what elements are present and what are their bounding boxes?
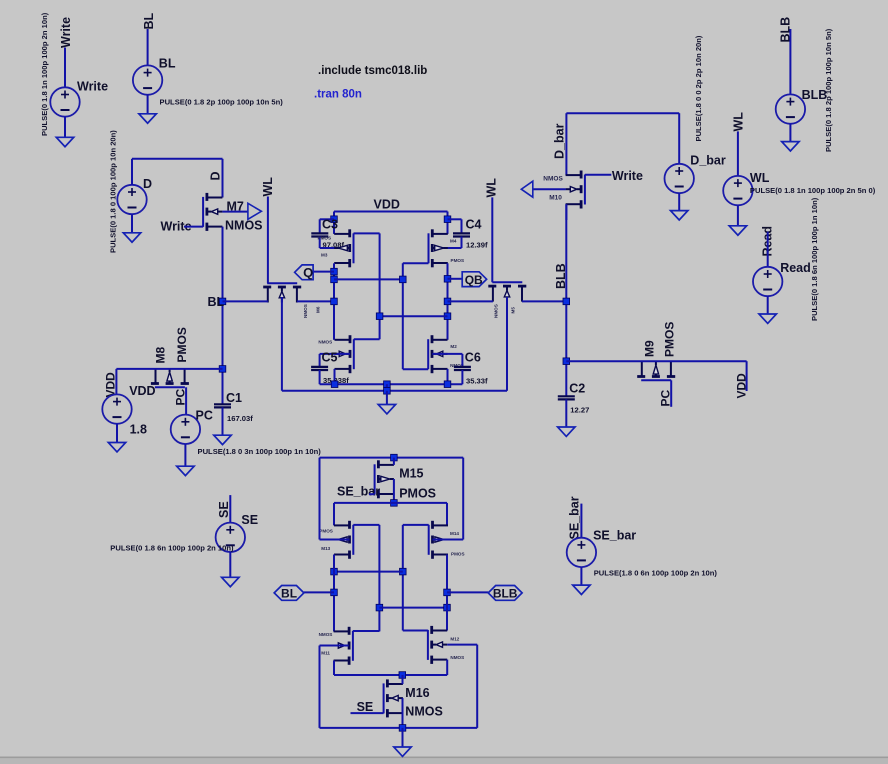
wire M3 gate lead (354, 232, 380, 234)
transistor M15 PMOS (374, 464, 376, 494)
junction SA ground (399, 725, 406, 732)
wire BL column (222, 227, 224, 405)
svg-text:PULSE(0 1.8 6n 100p 100p 2n 10: PULSE(0 1.8 6n 100p 100p 2n 10n) (110, 543, 234, 552)
wire M6 bulk down (281, 297, 283, 391)
wire M2 gate lead (403, 368, 428, 370)
svg-text:167.03f: 167.03f (227, 414, 253, 423)
wire M7 gate lead (184, 226, 203, 228)
wire BLB column (565, 204, 567, 396)
wire SA BL node (333, 555, 335, 632)
svg-text:C6: C6 (465, 351, 481, 365)
wire VDD src up (115, 369, 117, 395)
wire C3 top lead (319, 219, 321, 233)
wire right gates line (402, 263, 404, 369)
wire M16 source down (402, 698, 404, 728)
wire M15 bulk-source down (393, 479, 395, 503)
wire BLB net (789, 29, 791, 94)
ground PC (177, 466, 194, 475)
wire VDD stub right (746, 361, 748, 391)
flag BLB (488, 586, 522, 601)
wire M10 gate lead (585, 174, 611, 176)
wire M15 gate lead (369, 493, 375, 495)
transistor M4 PMOS (428, 233, 430, 263)
wire cell source rail (320, 383, 463, 385)
wire D_bar up (678, 113, 680, 164)
wire SE net (229, 495, 231, 522)
svg-text:PULSE(0 1.8 1n 100p 100p 2n 10: PULSE(0 1.8 1n 100p 100p 2n 10n) (40, 12, 49, 136)
svg-text:BL: BL (159, 57, 176, 71)
junction bulk rail (384, 388, 391, 395)
voltage source V-Read (753, 267, 782, 296)
wire M11 source down (333, 661, 335, 676)
wire Read net (767, 232, 769, 267)
svg-text:PULSE(1.8 0 0 2p 2p 10n 20n): PULSE(1.8 0 0 2p 2p 10n 20n) (694, 35, 703, 141)
wire C3 to VDD (320, 218, 334, 220)
svg-text:C5: C5 (322, 351, 338, 365)
svg-text:D_bar: D_bar (690, 154, 726, 168)
svg-text:PMOS: PMOS (175, 327, 189, 362)
transistor M11 NMOS (352, 631, 354, 661)
wire C6 bottom lead (461, 370, 463, 384)
svg-text:Q: Q (303, 265, 313, 280)
transistor M6 NMOS access left (267, 282, 297, 284)
svg-text:WL: WL (261, 177, 275, 197)
svg-text:PC: PC (196, 409, 213, 423)
wire QB node (447, 263, 449, 340)
svg-text:BL: BL (281, 587, 297, 601)
wire C4 drop (461, 219, 463, 233)
svg-text:PULSE(1.8 0 6n 100p 100p 2n 10: PULSE(1.8 0 6n 100p 100p 2n 10n) (594, 568, 718, 577)
ground BLB (782, 142, 799, 151)
capacitor C3 (311, 232, 328, 234)
ground VDD (108, 443, 125, 452)
wire M10 source down (565, 204, 567, 220)
wire M8 gate to PC (185, 387, 187, 414)
wire to ground (767, 296, 769, 314)
wire WL right column (491, 197, 493, 282)
wire C3 to M3 bulk (320, 247, 350, 249)
svg-text:M12: M12 (450, 636, 459, 641)
wire M11 gate lead (353, 630, 380, 632)
wire to ground (64, 117, 66, 138)
svg-text:M6: M6 (316, 306, 321, 313)
svg-text:NMOS: NMOS (318, 340, 332, 345)
svg-text:M5: M5 (511, 307, 516, 314)
junction SA BLB flag (444, 589, 451, 596)
junction SA left gates (376, 604, 383, 611)
svg-text:NMOS: NMOS (303, 304, 308, 318)
voltage source V-D_bar (665, 164, 694, 193)
svg-text:12.39f: 12.39f (466, 241, 488, 250)
wire BLB flag lead (447, 591, 488, 593)
wire M10 bulk to port (533, 188, 566, 190)
junction BLB M9 (563, 358, 570, 365)
wire M9 rail (566, 360, 746, 362)
svg-text:NMOS: NMOS (494, 304, 499, 318)
port WL left (248, 203, 262, 219)
svg-text:SE_bar: SE_bar (593, 528, 636, 542)
ground BL (139, 114, 156, 123)
voltage source V-SE_bar (567, 538, 596, 567)
svg-text:PMOS: PMOS (318, 236, 332, 241)
wire to ground (229, 552, 231, 577)
wire VDD rail (334, 211, 448, 213)
junction QB flag (444, 276, 451, 283)
wire SA bottom rail (320, 727, 478, 729)
junction Q cross (331, 276, 338, 283)
transistor M1 NMOS (353, 339, 355, 369)
svg-text:BLB: BLB (493, 587, 518, 601)
wire M12 source down (446, 660, 448, 675)
transistor M2 NMOS (427, 339, 429, 369)
junction M1 source (331, 381, 338, 388)
junction SA BL cross (331, 568, 338, 575)
wire M2 source down (447, 369, 449, 384)
voltage source V-Write (50, 87, 79, 116)
svg-text:SE: SE (357, 700, 374, 714)
wire D to M7 drain (222, 159, 224, 198)
wire mid rail drop right (446, 503, 448, 526)
wire M14 bulk L vertical (462, 458, 464, 540)
wire M15 drain up (393, 458, 395, 465)
svg-text:SE_bar: SE_bar (337, 485, 380, 499)
svg-text:1.8: 1.8 (130, 423, 147, 437)
junction BL M8 (219, 366, 226, 373)
svg-text:WL: WL (750, 171, 770, 185)
wire M1 gate lead (354, 338, 380, 340)
capacitor C6 (454, 366, 471, 368)
wire SA top rail (320, 457, 464, 459)
wire SA source rail (334, 674, 447, 676)
svg-text:BL: BL (208, 295, 225, 309)
svg-text:Write: Write (59, 17, 73, 48)
junction left gates (376, 313, 383, 320)
svg-text:WL: WL (732, 112, 746, 132)
wire rail link (386, 384, 388, 391)
wire C3 bottom lead (319, 237, 321, 249)
junction BLB access (563, 298, 570, 305)
junction Q access (331, 298, 338, 305)
svg-text:BL: BL (142, 12, 156, 29)
wire VDD drop left (333, 212, 335, 234)
wire cross to QB (380, 315, 448, 317)
svg-text:M13: M13 (321, 546, 330, 551)
junction BL node (219, 298, 226, 305)
wire M13 bulk L vertical (319, 458, 321, 540)
capacitor C2 (558, 395, 575, 397)
svg-text:Write: Write (612, 169, 643, 183)
transistor M12 NMOS (427, 630, 429, 660)
svg-text:D_bar: D_bar (553, 123, 567, 159)
capacitor C1 (214, 403, 231, 405)
transistor M3 PMOS (353, 233, 355, 263)
ground Write (56, 137, 73, 146)
wire M12 bulk horizontal (447, 644, 477, 646)
wire bulk rail (282, 390, 507, 392)
wire M4 gate lead (403, 262, 429, 264)
wire mid rail drop left (333, 503, 335, 526)
svg-text:D: D (209, 171, 223, 180)
wire to ground (116, 424, 118, 443)
voltage source V-BL (133, 65, 162, 94)
wire to ground (737, 205, 739, 226)
transistor M14 PMOS (428, 525, 430, 555)
junction SA right gates (400, 568, 407, 575)
wire SA cross right (379, 607, 447, 609)
ground SA (394, 747, 411, 756)
port WL right (521, 181, 533, 197)
ground D_bar (671, 211, 688, 220)
svg-text:NMOS: NMOS (543, 176, 563, 183)
flag Q (295, 265, 314, 280)
wire D horizontal (132, 158, 223, 160)
wire M5 drain to QB (448, 300, 493, 302)
junction M16 drain (399, 672, 406, 679)
transistor M10 NMOS (584, 175, 586, 205)
svg-text:C2: C2 (569, 382, 585, 396)
wire M6 drain to BL (223, 300, 268, 302)
wire M14 gate lead (403, 524, 429, 526)
wire to ground (402, 728, 404, 747)
wire M8 rail (116, 368, 222, 370)
wire M5 bulk down (506, 297, 508, 391)
svg-text:NMOS: NMOS (405, 704, 443, 718)
svg-text:NMOS: NMOS (450, 655, 464, 660)
capacitor C5 (311, 366, 328, 368)
junction C4 tap (444, 216, 451, 223)
svg-text:NMOS: NMOS (225, 219, 263, 233)
junction SA QB cross (444, 604, 451, 611)
ground D (123, 233, 140, 242)
transistor M8 PMOS (155, 386, 185, 388)
svg-text:35.33f: 35.33f (466, 376, 488, 385)
wire to ground (184, 444, 186, 466)
svg-text:M4: M4 (450, 238, 457, 243)
wire left gates line (379, 233, 381, 339)
svg-text:WL: WL (485, 178, 499, 198)
ground WL (729, 226, 746, 235)
wire C6 to M2 bulk (432, 353, 462, 355)
ground C1 (214, 435, 231, 444)
svg-text:M16: M16 (405, 686, 429, 700)
wire SE_bar net (580, 504, 582, 538)
svg-text:M11: M11 (321, 650, 330, 655)
svg-text:PULSE(0 1.8 0 100p 100p 10n 20: PULSE(0 1.8 0 100p 100p 10n 20n) (109, 130, 118, 253)
svg-text:D: D (143, 177, 152, 191)
svg-text:M2: M2 (450, 344, 457, 349)
wire C5 bottom lead (319, 370, 321, 384)
svg-text:PMOS: PMOS (451, 258, 465, 263)
svg-text:12.27: 12.27 (570, 406, 589, 415)
svg-text:M9: M9 (643, 340, 657, 357)
junction rail gnd tap (384, 381, 391, 388)
svg-text:.tran 80n: .tran 80n (314, 89, 362, 101)
wire M14 bulk horizontal (433, 539, 464, 541)
wire Write net (64, 48, 66, 88)
flag QB (462, 272, 486, 287)
voltage source V-VDD (102, 394, 131, 423)
svg-text:PC: PC (659, 389, 673, 406)
voltage source V-WL (723, 176, 752, 205)
wire SA left gates line (378, 525, 380, 632)
wire SA mid rail (334, 502, 447, 504)
wire SA right gates line (402, 525, 404, 631)
junction C3 tap (331, 216, 338, 223)
wire BL flag lead (304, 591, 334, 593)
wire WL left column (267, 197, 269, 284)
wire cross to Q (334, 278, 403, 280)
junction QB access (444, 298, 451, 305)
svg-text:PC: PC (174, 388, 188, 405)
wire SA BLB node (446, 555, 448, 631)
wire to ground (678, 193, 680, 210)
wire C4 top lead (448, 218, 462, 220)
wire M16 drain up (402, 675, 404, 684)
svg-text:M15: M15 (399, 467, 423, 481)
wire D_bar horizontal (566, 112, 679, 114)
svg-text:Write: Write (77, 80, 108, 94)
svg-text:VDD: VDD (129, 384, 155, 398)
junction M15 source (391, 500, 398, 507)
wire QB flag lead (448, 278, 463, 280)
wire C4 bottom lead (461, 237, 463, 249)
svg-text:M8: M8 (154, 347, 168, 364)
voltage source V-SE (216, 523, 245, 552)
junction right gates (400, 276, 407, 283)
wire Q flag lead (313, 271, 334, 273)
svg-text:VDD: VDD (374, 198, 400, 212)
wire BL net (147, 29, 149, 65)
transistor M16 NMOS (383, 683, 385, 713)
flag BL (274, 586, 304, 601)
wire M16 gate lead (351, 712, 384, 714)
svg-text:PULSE(0 1.8 6n 100p 100p 1n 10: PULSE(0 1.8 6n 100p 100p 1n 10n) (810, 197, 819, 321)
wire M13 bulk L horizontal (320, 539, 350, 541)
svg-text:PULSE(1.8 0 3n 100p 100p 1n 10: PULSE(1.8 0 3n 100p 100p 1n 10n) (198, 447, 322, 456)
svg-text:M14: M14 (450, 531, 459, 536)
wire M12 bulk L down (476, 645, 478, 728)
wire M6 source to Q (297, 300, 334, 302)
svg-text:SE: SE (241, 513, 258, 527)
svg-text:C1: C1 (226, 391, 242, 405)
svg-text:SE: SE (217, 501, 231, 518)
wire to ground (131, 214, 133, 233)
voltage source V-D (117, 185, 146, 214)
wire to ground (789, 124, 791, 142)
wire M12 gate lead (403, 630, 428, 632)
voltage source V-BLB (776, 94, 805, 123)
wire SA cross left (334, 571, 403, 573)
svg-text:PMOS: PMOS (319, 529, 333, 534)
wire M1 source down (334, 369, 336, 384)
wire M13 gate lead (353, 524, 379, 526)
junction SA BL flag (331, 589, 338, 596)
junction M2 source (444, 381, 451, 388)
wire C5 top lead (319, 354, 321, 367)
voltage source V-PC (171, 415, 200, 444)
wire C5 to M1 bulk (320, 353, 350, 355)
svg-text:M3: M3 (321, 252, 328, 257)
wire M9 gate to PC (670, 380, 672, 407)
wire to ground (147, 95, 149, 114)
capacitor C4 (453, 232, 470, 234)
wire C4 to M4 bulk (432, 247, 461, 249)
svg-text:PMOS: PMOS (663, 322, 677, 357)
svg-text:C3: C3 (322, 218, 338, 232)
transistor M5 NMOS access right (492, 281, 522, 283)
ground SE_bar (573, 585, 590, 594)
svg-text:QB: QB (465, 273, 483, 287)
ground cell (378, 405, 395, 414)
wire WL net (737, 131, 739, 176)
svg-text:PULSE(0 1.8 2p 100p 100p 10n 5: PULSE(0 1.8 2p 100p 100p 10n 5n) (160, 98, 284, 107)
junction M15 drain (391, 454, 398, 461)
svg-text:PMOS: PMOS (399, 487, 436, 501)
wire C1 bottom lead (222, 407, 224, 435)
svg-text:VDD: VDD (735, 373, 749, 399)
wire M11 bulk L down (319, 646, 321, 728)
wire Q node (333, 263, 335, 340)
junction Q flag (331, 268, 338, 275)
svg-text:M10: M10 (549, 195, 562, 202)
junction QB cross (444, 313, 451, 320)
svg-text:.include tsmc018.lib: .include tsmc018.lib (318, 65, 427, 77)
svg-text:Read: Read (780, 261, 811, 275)
wire D up (131, 159, 133, 185)
svg-text:NMOS: NMOS (319, 632, 333, 637)
svg-text:C4: C4 (466, 218, 482, 232)
wire to cell ground (386, 391, 388, 405)
transistor M9 PMOS (641, 379, 671, 381)
ground SE (222, 577, 239, 586)
transistor M7 NMOS (202, 197, 204, 227)
wire to ground (580, 567, 582, 585)
svg-text:SE_bar: SE_bar (568, 496, 582, 539)
svg-text:PULSE(0 1.8 1n 100p 100p 2n 5n: PULSE(0 1.8 1n 100p 100p 2n 5n 0) (750, 186, 876, 195)
ground C2 (558, 427, 575, 436)
svg-text:BLB: BLB (802, 88, 828, 102)
ground Read (759, 314, 776, 323)
wire M11 bulk horizontal (320, 645, 349, 647)
wire M7 bulk to port (222, 211, 247, 213)
wire D_bar to M10 drain (565, 113, 567, 175)
wire C2 bottom lead (565, 399, 567, 427)
wire VDD drop right (447, 212, 449, 234)
transistor M13 PMOS (352, 525, 354, 555)
svg-text:PMOS: PMOS (451, 551, 465, 556)
wire M5 source to BLB (522, 300, 566, 302)
wire C6 top lead (461, 354, 463, 367)
